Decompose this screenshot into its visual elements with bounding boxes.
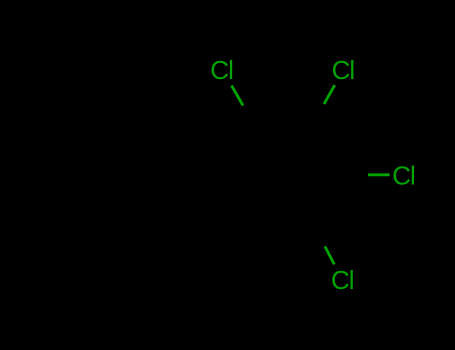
bond C5-Cl (bottom chlorine stub) [325,246,334,264]
svg-text:Cl: Cl [331,265,354,295]
svg-text:Cl: Cl [392,160,415,190]
svg-text:Cl: Cl [332,55,355,85]
svg-text:Cl: Cl [210,55,233,85]
bond C3-Cl (top-right chlorine stub) [324,85,335,104]
bond C4-Cl (right chlorine stub) [368,173,390,176]
bond C2-Cl (top-left chlorine stub) [232,86,244,106]
